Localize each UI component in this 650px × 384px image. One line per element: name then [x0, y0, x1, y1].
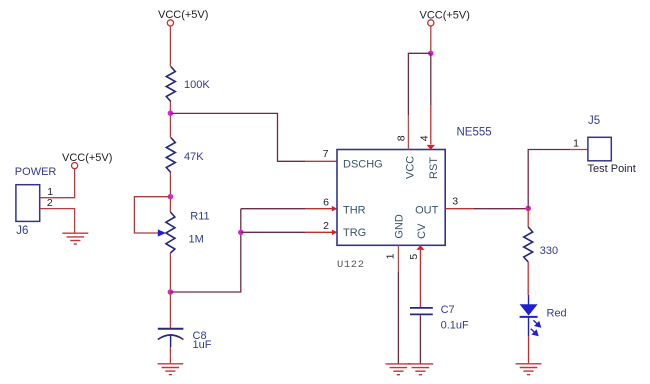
wire VCC stub top right: [430, 26, 432, 53]
svg-text:1: 1: [573, 138, 579, 150]
wire THR (pin 6): [241, 208, 305, 210]
svg-text:100K: 100K: [184, 79, 210, 91]
power symbol VCC(+5V) left: [62, 152, 112, 169]
wire R330 to LED: [527, 262, 529, 295]
LED Red (diode): [520, 304, 538, 317]
svg-text:Test Point: Test Point: [588, 163, 636, 175]
wire stub pin 4: [430, 105, 432, 145]
wire TRG (pin 2): [241, 231, 305, 233]
arrow pin 5 CV: [416, 245, 424, 250]
svg-text:1M: 1M: [189, 234, 204, 246]
node junction pot bottom / C8 / THR-TRG: [168, 289, 174, 295]
wire stub pin 7: [305, 160, 337, 162]
svg-text:C7: C7: [441, 304, 455, 316]
svg-text:8: 8: [395, 135, 407, 141]
svg-text:OUT: OUT: [415, 205, 439, 217]
resistor 330: [524, 227, 533, 262]
svg-text:GND: GND: [394, 214, 406, 239]
potentiometer R11: [166, 212, 175, 253]
wire C8 to ground: [169, 347, 171, 363]
wire R100K to R47K: [169, 102, 171, 138]
svg-text:1uF: 1uF: [193, 339, 212, 351]
svg-text:VCC: VCC: [405, 156, 417, 179]
ground (pin 1): [386, 364, 412, 375]
capacitor C8 (polarized): [158, 329, 184, 347]
ground (LED): [516, 364, 542, 375]
wire junction to DSCHG pin 7: [170, 113, 305, 161]
arrow pin 2 TRG: [332, 230, 338, 236]
ground (C7): [408, 364, 434, 375]
node junction R100K/R47K/DSCHG: [168, 110, 174, 116]
svg-text:0.1uF: 0.1uF: [441, 319, 469, 331]
svg-text:1: 1: [385, 253, 397, 259]
svg-text:VCC(+5V): VCC(+5V): [158, 9, 208, 21]
wiper arrow R11: [158, 229, 166, 236]
wire R47K to pot: [169, 173, 171, 213]
wire VCC to R100K: [169, 26, 171, 66]
wire VCC to pin 4: [430, 53, 432, 105]
svg-text:5: 5: [408, 254, 420, 260]
svg-text:J6: J6: [16, 225, 28, 237]
svg-text:330: 330: [540, 245, 558, 257]
wire pin 5 to C7: [419, 250, 421, 307]
LED emission arrows: [531, 320, 541, 335]
svg-text:DSCHG: DSCHG: [343, 158, 383, 170]
resistor 47K: [166, 138, 175, 173]
wire VCC to pin 8: [408, 53, 430, 115]
svg-text:POWER: POWER: [15, 166, 57, 178]
svg-text:Red: Red: [547, 307, 567, 319]
wire junction to THR/TRG: [170, 209, 240, 292]
wire LED to ground: [528, 317, 530, 363]
wire J6 pin2 to ground: [40, 209, 75, 233]
wire junction to R330: [527, 208, 529, 227]
node junction TRG branch: [238, 230, 244, 236]
connector J6: [16, 185, 40, 222]
wire OUT to junction: [474, 208, 528, 210]
wire stub pin 3 OUT: [445, 208, 474, 210]
svg-text:3: 3: [452, 196, 458, 208]
node junction VCC pins 8/4: [428, 51, 434, 57]
svg-text:U122: U122: [337, 259, 365, 271]
svg-text:2: 2: [323, 220, 329, 232]
wire junction to C8: [169, 292, 171, 328]
svg-text:CV: CV: [416, 223, 428, 239]
wire stub J5 pin 1: [570, 149, 588, 151]
svg-text:TRG: TRG: [343, 227, 366, 239]
wire J6 pin1 to VCC: [40, 169, 75, 198]
svg-text:R11: R11: [190, 211, 209, 223]
wire pot to C8 junction: [169, 253, 171, 292]
svg-text:VCC(+5V): VCC(+5V): [420, 10, 470, 22]
arrow pin 6 THR: [332, 206, 338, 212]
svg-text:NE555: NE555: [457, 126, 492, 138]
svg-text:4: 4: [419, 135, 431, 141]
power symbol VCC(+5V) for 555: [420, 10, 470, 26]
connector J5: [588, 137, 611, 161]
wire junction up to J5: [528, 150, 570, 209]
svg-text:THR: THR: [343, 205, 366, 217]
svg-text:VCC(+5V): VCC(+5V): [62, 152, 112, 164]
svg-text:6: 6: [323, 196, 329, 208]
wire stub pin 2: [305, 231, 332, 233]
svg-text:RST: RST: [428, 157, 440, 179]
wire pin 1 GND to ground: [397, 245, 399, 363]
wire stub pin 6: [305, 208, 332, 210]
arrow pin 4 RST: [427, 145, 435, 150]
ground (power): [62, 233, 88, 244]
ground (C8): [158, 364, 184, 375]
svg-text:2: 2: [47, 197, 53, 209]
IC U122 NE555 body: [337, 150, 445, 246]
wire C7 to ground: [419, 315, 421, 363]
wire pot wiper loop: [134, 197, 170, 233]
svg-text:47K: 47K: [184, 151, 204, 163]
resistor 100K: [166, 67, 175, 102]
svg-text:7: 7: [323, 148, 329, 160]
power symbol VCC(+5V) top: [158, 9, 208, 26]
capacitor C7: [410, 308, 433, 315]
svg-text:J5: J5: [588, 115, 600, 127]
node junction pot top: [168, 194, 174, 200]
node junction OUT/J5/R330: [525, 206, 531, 212]
